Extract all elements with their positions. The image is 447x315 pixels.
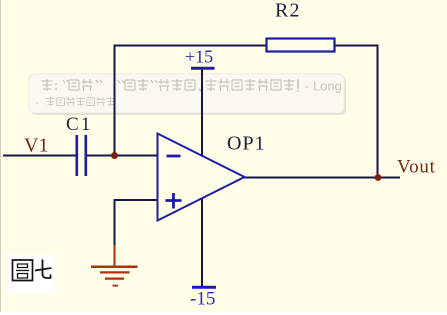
junction node at C1/feedback [111,152,118,159]
wire: feedback vertical left [114,45,116,156]
wire: plus input horizontal [115,199,159,201]
figure label glyph tu (圖) [13,260,33,281]
figure label box [8,255,55,293]
svg-text:V1: V1 [24,135,48,157]
left edge line [0,0,1,312]
svg-text:-15: -15 [190,289,215,310]
svg-text:- Long: - Long [305,79,342,94]
svg-text:R2: R2 [275,0,301,22]
wire: C1 to op-amp minus input [87,155,159,157]
bottom white strip [0,312,447,315]
svg-text:-: - [35,95,39,109]
op-amp minus symbol [167,155,181,158]
op-amp plus symbol [166,193,182,209]
power bar +15 [191,67,215,70]
power bar -15 [192,286,216,289]
svg-text:C1: C1 [66,114,93,135]
wire: R2 to right corner [334,45,379,47]
figure label glyph qi (七) [35,260,52,279]
wire: plus input vertical to ground [114,199,116,246]
junction node at output [375,174,382,181]
svg-text:OP1: OP1 [227,133,266,155]
capacitor C1 [77,135,86,176]
watermark box [29,74,346,115]
wire: input from V1 to C1 [3,155,76,157]
wire: op-amp power vertical [201,68,203,287]
wire: output horizontal [244,177,400,179]
op-amp OP1 triangle [158,134,245,221]
wire: right vertical down to output [377,45,379,178]
watermark text line1 CJK strokes [42,79,295,91]
svg-text:+15: +15 [185,47,213,67]
watermark punctuation [56,80,298,91]
wire: top horizontal to R2 [114,45,268,47]
svg-text:Vout: Vout [397,157,436,178]
resistor R2 [267,39,335,52]
ground [91,245,138,286]
